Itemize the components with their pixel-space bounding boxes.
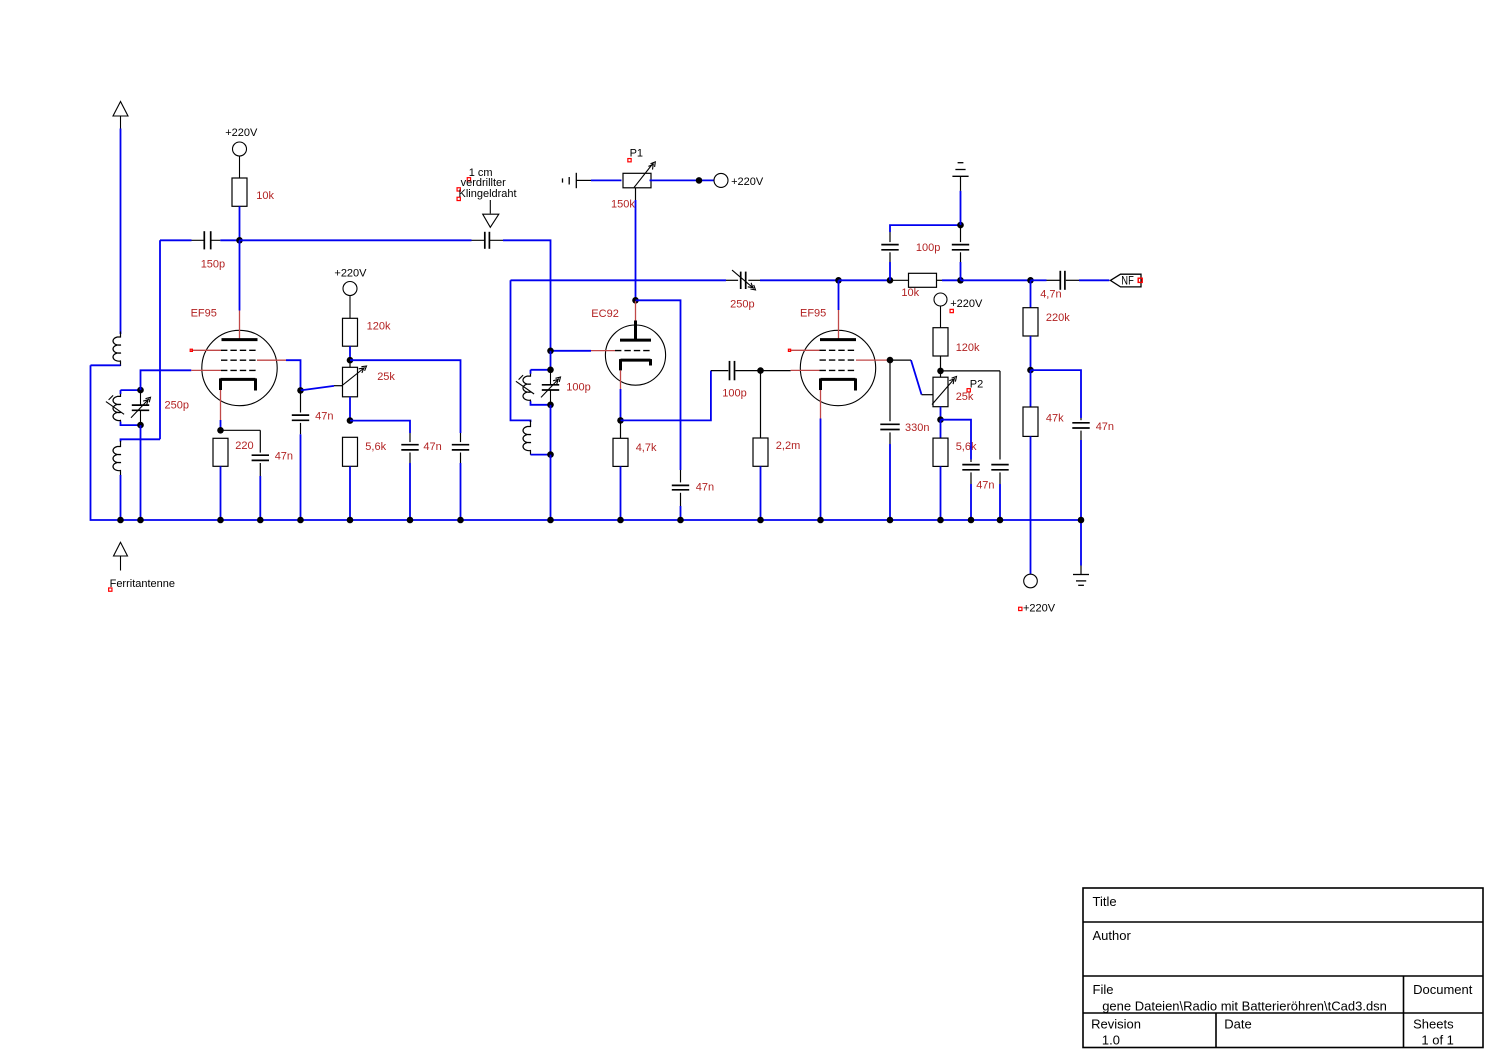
svg-text:1.0: 1.0: [1102, 1033, 1120, 1048]
wire anode feed: [239, 240, 241, 310]
svg-text:EC92: EC92: [591, 308, 619, 320]
wire tank top: [121, 389, 141, 391]
wire to P1: [591, 179, 622, 181]
junction on ground bus: [297, 517, 304, 524]
svg-text:250p: 250p: [165, 400, 189, 412]
wire to bus: [460, 463, 462, 520]
wire to bus: [999, 484, 1001, 520]
wire EC92 cathode node: [620, 389, 622, 420]
trimmer capacitor 250p: [726, 279, 738, 281]
junction: [937, 416, 944, 423]
tube EF95 V1 envelope: [202, 330, 277, 405]
wire to bus: [300, 434, 302, 520]
junction: [696, 177, 703, 184]
V2 cathode pin: [620, 370, 622, 389]
svg-text:Revision: Revision: [1091, 1017, 1141, 1032]
title block text: [1091, 894, 1473, 1048]
V1 grid3: [221, 349, 258, 351]
junction on ground bus: [617, 517, 624, 524]
wire tank bottom: [531, 404, 551, 406]
junction V3 screen node: [887, 357, 894, 364]
wire P2 bottom: [940, 407, 942, 420]
label Ferritantenne: [109, 588, 112, 591]
capacitor 47n output: [1080, 418, 1082, 420]
wire 47k to +220V (crosses bus): [1030, 436, 1032, 574]
V1 anode: [222, 338, 258, 341]
capacitor 47n: [409, 433, 411, 442]
pointer line and triangle: [489, 200, 491, 214]
junction grid2 node: [297, 387, 304, 394]
wire grid2 to node: [286, 360, 301, 390]
junction on ground bus: [457, 517, 464, 524]
wire cap to EC92 column: [503, 240, 551, 350]
V1 anode pin: [239, 311, 241, 340]
svg-text:+220V: +220V: [731, 176, 764, 188]
svg-text:4,7k: 4,7k: [636, 442, 657, 454]
junction filter right: [957, 277, 964, 284]
junction on ground bus: [757, 517, 764, 524]
wire tank1 to grid: [141, 370, 192, 390]
capacitor 47n: [460, 433, 462, 442]
inductor antenna coil L1: [113, 332, 121, 367]
svg-text:100p: 100p: [566, 382, 590, 394]
junction on ground bus: [217, 517, 224, 524]
node junction: [137, 387, 144, 394]
wire P1 to +220V: [650, 179, 715, 181]
node junction: [137, 422, 144, 429]
capacitor 100p filter right: [960, 225, 962, 242]
resistor 10k anode load: [232, 178, 247, 206]
svg-text:EF95: EF95: [800, 308, 826, 320]
junction on ground bus: [677, 517, 684, 524]
wire to filter right: [942, 279, 961, 281]
wire pot bottom: [349, 397, 351, 421]
wire to bus: [680, 506, 682, 520]
V2 cathode: [621, 359, 651, 362]
svg-text:Ferritantenne: Ferritantenne: [110, 578, 175, 590]
svg-text:10k: 10k: [901, 287, 919, 299]
svg-text:+220V: +220V: [225, 127, 258, 139]
node junction: [547, 367, 554, 374]
junction on ground bus: [547, 517, 554, 524]
svg-text:220k: 220k: [1046, 312, 1070, 324]
svg-text:47n: 47n: [696, 481, 714, 493]
junction ground node: [957, 222, 964, 229]
V1 cathode: [221, 378, 256, 381]
resistor 220k: [1023, 308, 1038, 336]
wire cathode to bus: [820, 419, 822, 521]
svg-text:150k: 150k: [611, 199, 635, 211]
V2 anode: [620, 339, 651, 342]
svg-text:25k: 25k: [956, 391, 974, 403]
junction output node: [1027, 277, 1034, 284]
svg-text:Title: Title: [1093, 894, 1117, 909]
svg-text:Author: Author: [1093, 928, 1132, 943]
ground chassis symbol top: [960, 176, 962, 191]
V3 anode pin: [838, 310, 840, 340]
wire anode up: [838, 280, 840, 310]
wire 150p row: [160, 239, 192, 241]
svg-text:10k: 10k: [256, 190, 274, 202]
svg-text:250p: 250p: [730, 298, 754, 310]
V3 cathode pin: [820, 390, 822, 419]
junction cathode node: [217, 427, 224, 434]
variable inductor (coil with adjustment bar): [530, 370, 532, 374]
wire ground bus: [91, 365, 1082, 520]
svg-text:P1: P1: [630, 148, 643, 160]
svg-text:NF: NF: [1121, 276, 1134, 288]
junction filter left: [887, 277, 894, 284]
wire to ground node: [890, 225, 961, 232]
junction 10k/150p: [236, 237, 243, 244]
wire 10k to node: [239, 206, 241, 240]
inductor coupling coil L2: [121, 439, 161, 441]
resistor 5,6k: [940, 420, 942, 438]
svg-text:330n: 330n: [905, 422, 929, 434]
junction on ground bus: [817, 517, 824, 524]
capacitor 47n cathode bypass: [252, 454, 269, 456]
junction: [1027, 367, 1034, 374]
svg-text:120k: 120k: [367, 321, 391, 333]
svg-text:5,6k: 5,6k: [365, 441, 386, 453]
wire column to bus: [550, 455, 552, 520]
junction pot bottom: [347, 417, 354, 424]
junction V3 anode node: [835, 277, 842, 284]
connector NF output: [1110, 274, 1141, 287]
svg-text:5,6k: 5,6k: [956, 441, 977, 453]
wire wiper diagonal: [301, 386, 335, 391]
wire P1 wiper down: [635, 188, 637, 200]
svg-text:1 of 1: 1 of 1: [1421, 1033, 1454, 1048]
svg-text:Klingeldraht: Klingeldraht: [459, 188, 517, 200]
resistor 47k: [1030, 370, 1032, 407]
V1 grid2: [221, 359, 258, 361]
V1 cathode pin: [220, 390, 222, 420]
wire 220 to bus: [220, 466, 222, 520]
wire output node down: [1030, 280, 1032, 307]
svg-text:Sheets: Sheets: [1413, 1017, 1454, 1032]
ground chassis symbol at P1: [575, 173, 577, 188]
junction: [937, 368, 944, 375]
+220V supply terminal 5: [1024, 574, 1038, 588]
wire coil L1 to ground: [91, 364, 121, 366]
wire cathode to 47n: [221, 429, 261, 431]
potentiometer P1 150k: [623, 173, 651, 188]
+220V supply terminal 3: [714, 173, 728, 187]
wire to V3 grid: [761, 370, 791, 372]
wire node right: [1031, 370, 1082, 418]
wire grid: [551, 350, 592, 352]
junction grid node: [547, 348, 554, 355]
V3 grid1 stub: [791, 369, 820, 371]
resistor 120k screen feed: [933, 328, 948, 356]
wire screen node right: [350, 360, 461, 433]
wire tank2 to coil node: [550, 405, 552, 455]
wire to junction: [220, 239, 239, 241]
Ferritantenne arrow symbol: [114, 542, 128, 556]
annotation 1 cm verdrillter Klingeldraht: [467, 178, 470, 181]
inductor feedback coil L5: [511, 280, 531, 422]
capacitor 47n screen bypass: [300, 390, 302, 412]
V3 grid2 stub: [856, 359, 887, 361]
svg-text:+220V: +220V: [334, 267, 367, 279]
V3 grid2: [820, 359, 857, 361]
tube EC92 V2 envelope: [605, 325, 665, 385]
title block frame: [1083, 888, 1483, 1048]
junction on ground bus: [347, 517, 354, 524]
svg-text:100p: 100p: [722, 388, 746, 400]
junction on ground bus: [117, 517, 124, 524]
wire 120k to node: [349, 346, 351, 360]
junction grid node V3: [757, 367, 764, 374]
+220V supply terminal 4: [934, 293, 947, 306]
svg-text:File: File: [1093, 982, 1114, 997]
V1 grid2 stub: [257, 359, 286, 361]
V3 anode: [820, 338, 856, 341]
svg-text:47n: 47n: [423, 441, 441, 453]
capacitor 4,7n output coupling: [1047, 279, 1060, 281]
wire top row: [511, 279, 727, 281]
potentiometer P2 25k: [940, 371, 942, 377]
wire to bus: [349, 466, 351, 520]
variable inductor (coil with adjustment bar): [120, 390, 122, 394]
svg-text:47n: 47n: [315, 411, 333, 423]
wire tank1 to ground: [140, 425, 142, 520]
svg-text:4,7n: 4,7n: [1040, 289, 1061, 301]
wire 250p to anode node: [760, 279, 839, 281]
wire node to 47n cathode cap: [941, 420, 972, 460]
svg-text:Document: Document: [1413, 982, 1473, 997]
wire to bus: [760, 466, 762, 520]
node junction: [547, 402, 554, 409]
wire to bus: [409, 463, 411, 520]
junction on ground bus: [407, 517, 414, 524]
variable capacitor: [550, 370, 552, 385]
resistor 2,2m grid leak: [760, 371, 762, 438]
junction EC92 anode node: [632, 297, 639, 304]
capacitor 47n: [991, 464, 1008, 466]
V2 grid: [615, 350, 651, 352]
svg-text:gene Dateien\Radio mit Batteri: gene Dateien\Radio mit Batterieröhren\tC…: [1102, 999, 1387, 1014]
wire junction to Klingeldraht cap: [240, 239, 472, 241]
capacitor 330n: [889, 360, 891, 421]
capacitor 100p coupling: [711, 370, 728, 372]
potentiometer 25k: [349, 360, 351, 367]
svg-text:2,2m: 2,2m: [776, 440, 800, 452]
wire 150p left down: [159, 240, 161, 439]
svg-text:47n: 47n: [976, 480, 994, 492]
svg-text:+220V: +220V: [950, 298, 983, 310]
V3 cathode: [821, 378, 856, 381]
resistor 220 cathode: [213, 438, 228, 466]
wire node to 4,7n: [1031, 279, 1047, 281]
wire 220k to node: [1030, 336, 1032, 370]
junction: [547, 451, 554, 458]
wire to bus: [1080, 440, 1082, 520]
svg-text:25k: 25k: [377, 371, 395, 383]
svg-text:47n: 47n: [1096, 421, 1114, 433]
V3 grid3: [820, 349, 857, 351]
variable capacitor: [140, 390, 142, 405]
V3 grid3 stub: [790, 349, 820, 351]
tube EF95 V3 envelope: [800, 330, 875, 405]
resistor 5,6k: [343, 437, 358, 466]
svg-text:EF95: EF95: [191, 308, 217, 320]
wire antenna down: [120, 129, 122, 335]
junction screen node: [347, 357, 354, 364]
junction on ground bus: [968, 517, 975, 524]
ground symbol bottom right: [1080, 520, 1082, 566]
capacitor 100p filter left: [889, 262, 891, 280]
svg-text:47n: 47n: [275, 451, 293, 463]
capacitor 150p: [192, 239, 205, 241]
junction cathode node: [617, 417, 624, 424]
svg-text:150p: 150p: [201, 259, 225, 271]
svg-text:+220V: +220V: [1023, 603, 1056, 615]
svg-text:Date: Date: [1224, 1017, 1251, 1032]
V1 grid3 stub: [191, 349, 221, 351]
svg-text:P2: P2: [970, 379, 983, 391]
resistor 4,7k cathode: [620, 420, 622, 438]
wire cathode to 100p: [621, 371, 711, 421]
capacitor 47n anode: [680, 470, 682, 482]
V3 grid1: [820, 369, 857, 371]
antenna symbol: [113, 102, 128, 117]
svg-text:47k: 47k: [1046, 412, 1064, 424]
svg-text:220: 220: [235, 440, 253, 452]
wire 120k to node: [940, 356, 942, 371]
wire node right to 47n: [941, 370, 1001, 372]
wire 4,7n to NF: [1079, 279, 1109, 281]
junction on ground bus: [937, 517, 944, 524]
resistor 120k: [343, 318, 358, 346]
V1 grid1: [221, 369, 258, 371]
wire node to 47n: [350, 421, 410, 433]
V2 anode pin: [635, 301, 637, 321]
V1 grid1 stub: [191, 369, 221, 371]
wire tank bottom: [121, 424, 141, 426]
wire to bus: [620, 466, 622, 520]
wire to bus: [940, 466, 942, 520]
wire center column: [550, 351, 552, 370]
V2 grid stub: [591, 350, 615, 352]
junction on ground bus: [257, 517, 264, 524]
junction on ground bus: [137, 517, 144, 524]
junction on ground bus: [997, 517, 1004, 524]
wire anode node right: [839, 279, 891, 281]
wire cathode to node: [220, 420, 222, 430]
wire to bus: [970, 484, 972, 520]
resistor 10k decoupling: [890, 279, 909, 281]
capacitor 47n: [962, 464, 979, 466]
svg-text:100p: 100p: [916, 242, 940, 254]
wire screen to wiper: [890, 359, 911, 361]
wire 330n to bus: [889, 444, 891, 520]
svg-text:120k: 120k: [956, 342, 980, 354]
junction on ground bus: [887, 517, 894, 524]
wire to chassis ground: [960, 191, 962, 225]
wire 47n to bus: [259, 476, 261, 520]
capacitor Klingeldraht (twisted wire): [472, 239, 485, 241]
junction on ground bus: [1078, 517, 1085, 524]
wire EC92 anode right: [636, 300, 681, 470]
wire tank top: [531, 369, 551, 371]
wire to output cap: [961, 279, 1031, 281]
